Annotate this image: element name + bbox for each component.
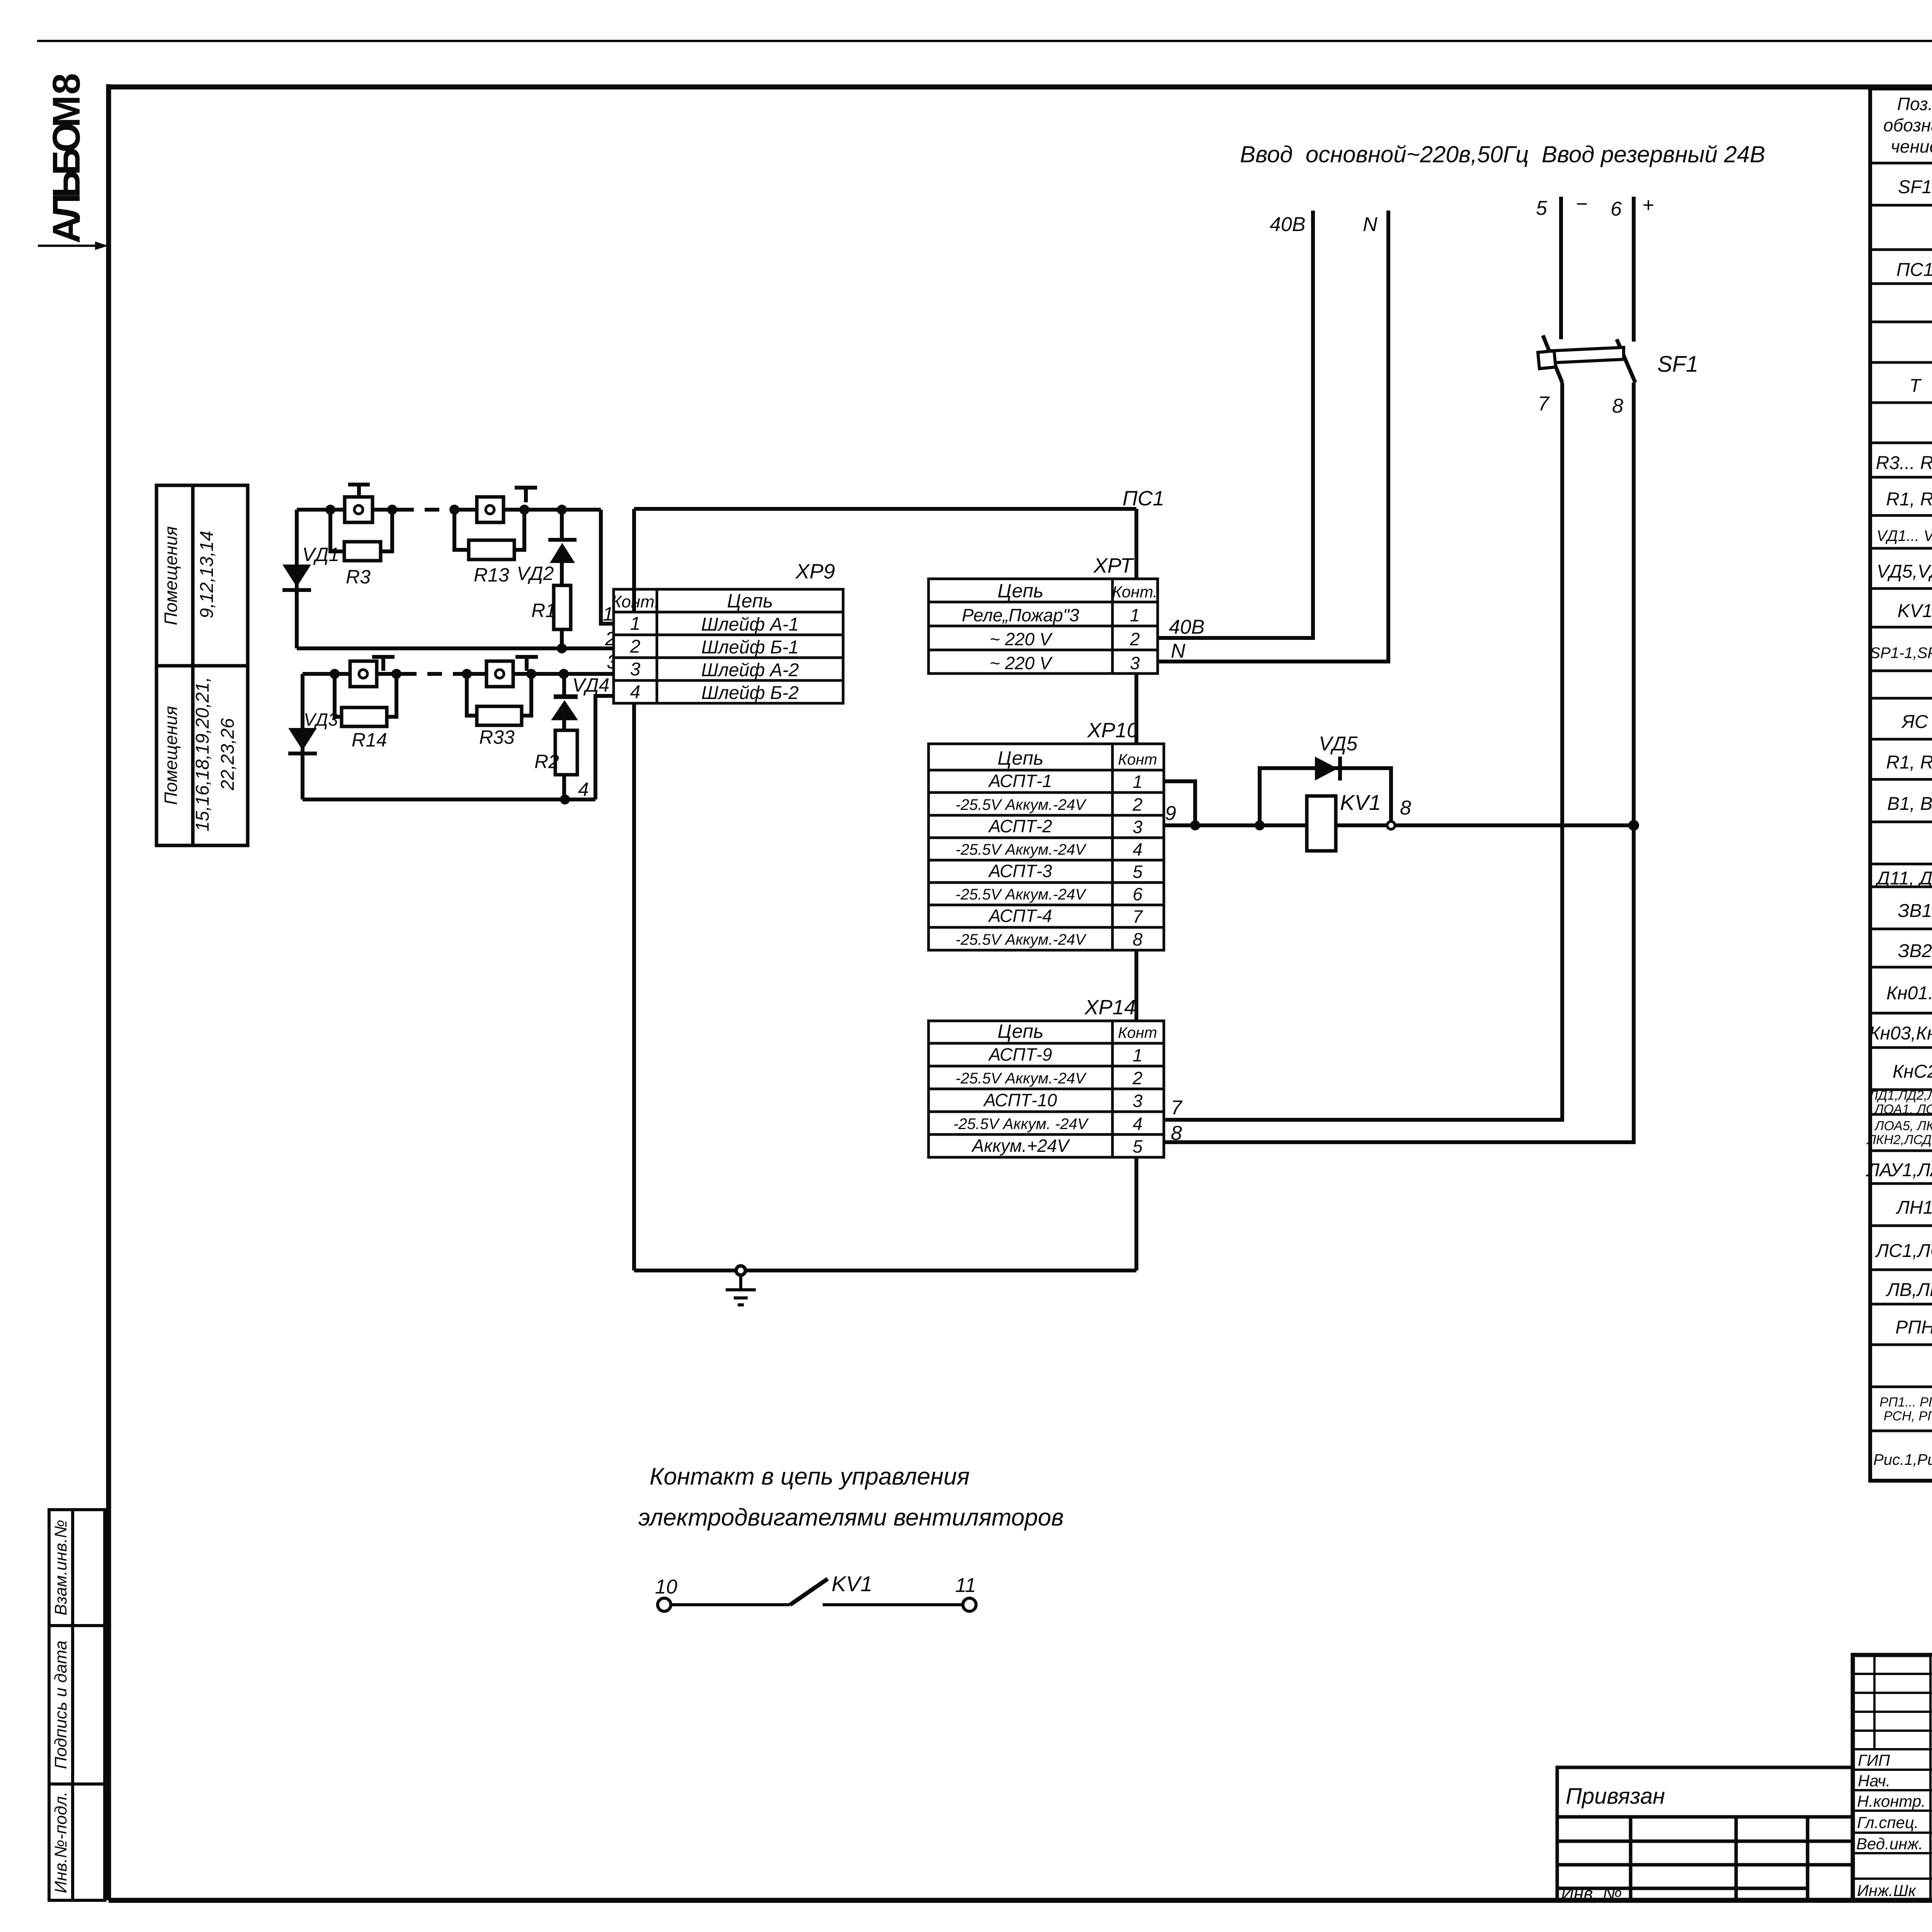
svg-text:АСПТ-10: АСПТ-10 (983, 1090, 1057, 1110)
svg-text:АСПТ-2: АСПТ-2 (988, 816, 1052, 836)
svg-text:Шлейф Б-2: Шлейф Б-2 (701, 683, 799, 703)
svg-text:Цепь: Цепь (727, 590, 773, 612)
svg-text:10: 10 (655, 1576, 677, 1598)
svg-text:3: 3 (1133, 1091, 1143, 1111)
svg-text:АСПТ-9: АСПТ-9 (988, 1044, 1052, 1065)
svg-text:1: 1 (1130, 605, 1140, 625)
svg-text:АСПТ-4: АСПТ-4 (988, 906, 1052, 926)
svg-text:ЛКН2,ЛСД,ЛПД: ЛКН2,ЛСД,ЛПД (1866, 1133, 1932, 1147)
svg-text:Конт: Конт (1118, 751, 1157, 768)
svg-text:Привязан: Привязан (1566, 1784, 1665, 1809)
svg-text:Аккум.+24V: Аккум.+24V (971, 1136, 1070, 1156)
svg-text:VД3: VД3 (304, 709, 338, 730)
svg-text:КнС2: КнС2 (1893, 1061, 1932, 1082)
svg-text:4: 4 (1133, 1114, 1143, 1134)
svg-text:Рис.1,Рис.2: Рис.1,Рис.2 (1873, 1451, 1932, 1468)
svg-text:6: 6 (1133, 884, 1143, 904)
svg-text:5: 5 (1133, 1136, 1143, 1156)
svg-text:R14: R14 (352, 729, 387, 751)
svg-text:VД1: VД1 (302, 544, 339, 565)
svg-text:В1, В2: В1, В2 (1887, 794, 1932, 814)
svg-text:Ввод основной~220в,50Гц Ввод: Ввод основной~220в,50Гц Ввод резервный 2… (1240, 141, 1765, 167)
svg-text:-25.5V Аккум. -24V: -25.5V Аккум. -24V (953, 1116, 1089, 1133)
svg-text:3: 3 (1133, 817, 1143, 837)
svg-text:−: − (1576, 193, 1587, 215)
svg-text:R13: R13 (474, 564, 509, 586)
svg-text:-25.5V Аккум.-24V: -25.5V Аккум.-24V (956, 886, 1087, 903)
svg-text:Гл.спец.: Гл.спец. (1857, 1813, 1919, 1832)
svg-text:R1, R2: R1, R2 (1886, 489, 1932, 510)
svg-text:4: 4 (578, 779, 589, 800)
svg-text:VД4: VД4 (572, 674, 609, 696)
svg-text:3: 3 (1130, 653, 1140, 673)
svg-text:АСПТ-1: АСПТ-1 (988, 771, 1052, 791)
svg-text:KV1: KV1 (1898, 601, 1932, 621)
svg-text:РСН, РПС: РСН, РПС (1884, 1409, 1932, 1423)
svg-text:ХР10: ХР10 (1087, 719, 1138, 742)
svg-text:R1, R2: R1, R2 (1886, 752, 1932, 773)
svg-text:Помещения: Помещения (161, 706, 181, 805)
svg-text:~ 220 V: ~ 220 V (990, 629, 1053, 649)
svg-text:ХР14: ХР14 (1084, 996, 1136, 1019)
svg-text:5: 5 (1133, 862, 1143, 882)
svg-text:2: 2 (630, 636, 641, 657)
svg-text:22,23,26: 22,23,26 (218, 718, 238, 791)
svg-text:Взам.инв.№: Взам.инв.№ (51, 1520, 70, 1616)
svg-text:Инв.№-подл.: Инв.№-подл. (51, 1791, 70, 1893)
svg-text:ЛОА5, ЛКН-1: ЛОА5, ЛКН-1 (1874, 1119, 1932, 1133)
svg-text:ЗВ1: ЗВ1 (1898, 901, 1932, 921)
svg-text:4: 4 (1133, 839, 1143, 859)
svg-text:N: N (1171, 640, 1185, 662)
svg-text:ЯС: ЯС (1901, 712, 1928, 732)
svg-text:6: 6 (1611, 198, 1622, 220)
svg-text:VД5,VД6: VД5,VД6 (1877, 561, 1932, 582)
svg-text:РПН: РПН (1895, 1317, 1932, 1338)
svg-text:KV1: KV1 (832, 1571, 872, 1596)
svg-text:9,12,13,14: 9,12,13,14 (197, 531, 217, 619)
svg-text:8: 8 (1612, 395, 1623, 417)
svg-text:7: 7 (1133, 906, 1143, 927)
svg-text:-25.5V Аккум.-24V: -25.5V Аккум.-24V (956, 796, 1087, 813)
svg-text:SP1-1,SP1-2: SP1-1,SP1-2 (1870, 645, 1932, 662)
svg-text:Подпись и дата: Подпись и дата (51, 1641, 70, 1769)
svg-text:Шлейф А-1: Шлейф А-1 (701, 614, 799, 635)
svg-text:8: 8 (1133, 929, 1143, 949)
svg-text:Шлейф Б-1: Шлейф Б-1 (701, 637, 799, 658)
svg-text:Поз.: Поз. (1897, 94, 1932, 114)
svg-text:1: 1 (1133, 772, 1143, 792)
svg-text:ЛОА1, ЛОА2,: ЛОА1, ЛОА2, (1874, 1102, 1932, 1117)
svg-text:8: 8 (1400, 797, 1411, 819)
svg-text:11: 11 (955, 1574, 976, 1597)
svg-text:2: 2 (1129, 629, 1140, 649)
svg-text:Цепь: Цепь (997, 580, 1043, 602)
svg-text:Цепь: Цепь (997, 747, 1043, 769)
svg-text:Контакт в цепь управления: Контакт в цепь управления (650, 1463, 969, 1490)
svg-text:R3... R33: R3... R33 (1876, 453, 1932, 473)
svg-text:ЛС1,ЛС2: ЛС1,ЛС2 (1875, 1241, 1932, 1261)
svg-text:электродвигателями вентилятор: электродвигателями вентиляторов (638, 1504, 1064, 1531)
svg-text:VД2: VД2 (517, 563, 554, 584)
svg-text:1: 1 (1133, 1045, 1143, 1065)
svg-text:2: 2 (1132, 1068, 1143, 1088)
svg-text:VД1... VД4: VД1... VД4 (1877, 527, 1932, 544)
svg-text:Инж.Шк: Инж.Шк (1857, 1881, 1917, 1900)
svg-text:1: 1 (630, 614, 641, 634)
svg-text:-25.5V Аккум.-24V: -25.5V Аккум.-24V (956, 841, 1087, 858)
svg-text:Цепь: Цепь (997, 1020, 1043, 1042)
svg-text:7: 7 (1538, 393, 1550, 415)
svg-text:R3: R3 (346, 566, 371, 588)
svg-text:3: 3 (630, 659, 641, 680)
svg-text:~ 220 V: ~ 220 V (990, 653, 1053, 673)
svg-text:R33: R33 (479, 726, 515, 748)
svg-text:5: 5 (1536, 197, 1548, 219)
svg-text:7: 7 (1171, 1097, 1183, 1119)
svg-text:ГИП: ГИП (1858, 1751, 1890, 1769)
svg-text:4: 4 (630, 682, 641, 702)
svg-text:ХРТ: ХРТ (1093, 554, 1134, 577)
svg-text:-25.5V Аккум.-24V: -25.5V Аккум.-24V (956, 931, 1087, 948)
svg-text:ЛН1: ЛН1 (1896, 1197, 1932, 1218)
svg-text:SF1: SF1 (1898, 177, 1932, 197)
svg-text:АЛЬБОМ 8: АЛЬБОМ 8 (45, 74, 88, 243)
svg-text:R1: R1 (531, 600, 556, 621)
svg-text:ЛВ,ЛП: ЛВ,ЛП (1886, 1280, 1932, 1300)
svg-text:Инв. №: Инв. № (1561, 1883, 1622, 1903)
svg-text:ПС1: ПС1 (1896, 260, 1932, 280)
svg-text:+: + (1642, 194, 1654, 216)
svg-text:VД5: VД5 (1319, 733, 1358, 755)
svg-text:9: 9 (1165, 802, 1176, 825)
svg-text:Н.контр.: Н.контр. (1857, 1792, 1926, 1810)
svg-text:Вед.инж.: Вед.инж. (1856, 1835, 1923, 1853)
svg-text:N: N (1363, 213, 1378, 236)
svg-text:Нач.: Нач. (1858, 1772, 1890, 1790)
svg-text:R2: R2 (534, 751, 559, 772)
svg-text:Шлейф А-2: Шлейф А-2 (701, 660, 799, 680)
svg-text:15,16,18,19,20,21,: 15,16,18,19,20,21, (192, 677, 213, 832)
svg-text:ЛД1,ЛД2,ЛД-5,: ЛД1,ЛД2,ЛД-5, (1868, 1088, 1932, 1103)
svg-text:ХР9: ХР9 (795, 560, 835, 583)
svg-text:2: 2 (1132, 794, 1143, 815)
svg-text:ПС1: ПС1 (1122, 487, 1164, 510)
svg-text:Кн01...: Кн01... (1886, 983, 1932, 1003)
svg-text:40В: 40В (1169, 616, 1205, 638)
svg-text:ЛАУ1,ЛАУ2: ЛАУ1,ЛАУ2 (1866, 1160, 1932, 1180)
svg-text:Конт.: Конт. (1112, 583, 1157, 601)
svg-text:Т: Т (1909, 376, 1922, 396)
svg-text:РП1... РПЧ,: РП1... РПЧ, (1879, 1395, 1932, 1410)
svg-text:обозна-: обозна- (1883, 115, 1932, 135)
svg-text:Конт: Конт (1118, 1024, 1157, 1041)
svg-text:Д11, Д31: Д11, Д31 (1875, 868, 1932, 889)
svg-text:чение: чение (1891, 136, 1932, 156)
svg-text:ЗВ2: ЗВ2 (1898, 941, 1932, 961)
svg-text:8: 8 (1171, 1122, 1182, 1145)
svg-text:Кн03,КнС1: Кн03,КнС1 (1869, 1023, 1932, 1044)
svg-text:Помещения: Помещения (161, 526, 181, 625)
svg-text:АСПТ-3: АСПТ-3 (988, 861, 1052, 881)
svg-text:Реле„Пожар"3: Реле„Пожар"3 (962, 605, 1079, 625)
svg-text:KV1: KV1 (1340, 790, 1381, 815)
svg-text:40В: 40В (1270, 213, 1306, 236)
svg-text:SF1: SF1 (1657, 352, 1698, 377)
svg-text:-25.5V Аккум.-24V: -25.5V Аккум.-24V (956, 1070, 1087, 1087)
